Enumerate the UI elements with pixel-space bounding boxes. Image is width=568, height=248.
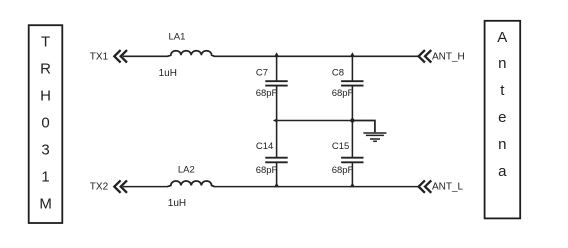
junction arrow at C7 top (274, 52, 279, 57)
svg-text:ANT_L: ANT_L (432, 181, 464, 192)
svg-text:n: n (498, 136, 506, 153)
svg-text:LA1: LA1 (169, 32, 186, 43)
svg-text:A: A (497, 29, 507, 46)
wire C8 to middle (351, 86, 353, 120)
junction arrow at C15 bottom (350, 183, 355, 188)
svg-text:1uH: 1uH (159, 68, 177, 79)
junction dot at middle wire right (350, 118, 354, 122)
ground (363, 133, 386, 141)
wire top to C8 (351, 56, 353, 80)
wire middle to C15 (351, 121, 353, 158)
inductor LA2 (168, 181, 215, 187)
wire LA1 to ANT_H (214, 55, 419, 57)
wire C15 to bottom (351, 163, 353, 187)
port chevron ANT_L (419, 180, 432, 192)
svg-text:C8: C8 (332, 67, 344, 78)
port chevron ANT_H (419, 50, 432, 62)
port chevron TX2 (114, 180, 127, 192)
svg-text:1uH: 1uH (168, 198, 186, 209)
wire C7 to middle (276, 86, 278, 120)
capacitor C8 (341, 81, 363, 85)
wire to ground (352, 121, 375, 133)
svg-text:68pF: 68pF (256, 165, 278, 176)
capacitor C14 (265, 158, 287, 163)
block TRH031M (29, 25, 63, 223)
wire top to C7 (276, 56, 278, 80)
svg-text:TX2: TX2 (90, 181, 109, 192)
svg-text:1: 1 (41, 168, 49, 185)
junction arrow at C14 bottom (274, 183, 279, 188)
middle wire (277, 120, 353, 122)
port chevron TX1 (114, 50, 127, 62)
svg-text:a: a (498, 163, 507, 180)
wire LA2 to ANT_L (214, 186, 419, 188)
svg-text:TX1: TX1 (90, 51, 109, 62)
svg-text:LA2: LA2 (178, 164, 195, 175)
wire C14 to bottom (276, 163, 278, 187)
svg-text:n: n (498, 55, 506, 72)
svg-text:M: M (39, 195, 52, 212)
svg-text:0: 0 (41, 114, 49, 131)
svg-text:68pF: 68pF (332, 88, 354, 99)
wire TX2 to LA2 (123, 186, 168, 188)
svg-text:H: H (40, 87, 51, 104)
svg-text:3: 3 (41, 141, 49, 158)
inductor LA1 (168, 51, 215, 57)
block Antena (485, 21, 521, 219)
svg-text:ANT_H: ANT_H (432, 51, 465, 62)
svg-text:C14: C14 (256, 141, 273, 152)
junction arrow at middle wire left (273, 118, 278, 123)
svg-text:C7: C7 (256, 67, 268, 78)
wire TX1 to LA1 (123, 55, 168, 57)
svg-text:T: T (41, 33, 50, 50)
junction arrow at C8 top (350, 52, 355, 57)
svg-text:R: R (40, 60, 51, 77)
capacitor C7 (265, 81, 287, 85)
wire middle to C14 (276, 121, 278, 158)
svg-text:68pF: 68pF (256, 88, 278, 99)
svg-text:e: e (498, 109, 506, 126)
svg-text:68pF: 68pF (332, 165, 354, 176)
svg-text:C15: C15 (332, 141, 349, 152)
capacitor C15 (341, 158, 363, 163)
